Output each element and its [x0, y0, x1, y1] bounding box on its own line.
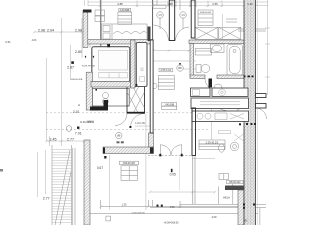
svg-text:GANG: GANG: [87, 120, 94, 123]
svg-text:2.88: 2.88: [117, 2, 123, 6]
svg-text:J 80.60B: J 80.60B: [120, 9, 130, 12]
svg-text:2.98: 2.98: [38, 28, 45, 32]
svg-text:2.04: 2.04: [47, 28, 54, 32]
svg-text:2.77: 2.77: [43, 197, 50, 201]
svg-text:2.45: 2.45: [50, 137, 57, 141]
svg-text:J/08.00.00B: J/08.00.00B: [71, 79, 83, 81]
svg-text:J/08.00.007: J/08.00.007: [123, 162, 136, 165]
svg-text:1.50: 1.50: [170, 206, 175, 209]
svg-text:0.67: 0.67: [97, 166, 103, 170]
svg-text:HELA: HELA: [223, 195, 230, 199]
svg-text:J/08.00.002: J/08.00.002: [200, 12, 212, 14]
svg-text:2.80: 2.80: [75, 50, 82, 54]
svg-text:0.05: 0.05: [170, 173, 176, 177]
svg-text:2.09-30.2/3: 2.09-30.2/3: [206, 141, 219, 144]
svg-text:20: 20: [244, 219, 248, 223]
svg-text:1.20: 1.20: [247, 2, 253, 6]
svg-text:+8.00=306.00: +8.00=306.00: [164, 222, 179, 225]
svg-text:J05.60.002: J05.60.002: [229, 181, 242, 184]
svg-text:2.98: 2.98: [75, 28, 82, 32]
svg-text:2.77: 2.77: [67, 137, 74, 141]
svg-text:2.87: 2.87: [67, 66, 74, 70]
svg-text:1.41 1.05: 1.41 1.05: [135, 123, 145, 125]
svg-text:2.55 2.04: 2.55 2.04: [160, 69, 171, 72]
svg-text:2.51: 2.51: [5, 40, 11, 44]
svg-text:H: H: [78, 103, 80, 107]
svg-text:4.03: 4.03: [32, 39, 37, 42]
svg-text:J 80.60B: J 80.60B: [164, 104, 174, 107]
svg-text:2.10: 2.10: [73, 110, 79, 114]
svg-text:2.09: 2.09: [212, 216, 217, 219]
svg-text:+8.00=306.00: +8.00=306.00: [131, 213, 145, 215]
svg-text:KOPLHY 4M: KOPLHY 4M: [82, 66, 95, 68]
svg-text:1.30: 1.30: [122, 203, 127, 206]
svg-text:7.01: 7.01: [75, 131, 82, 135]
svg-text:1.98: 1.98: [167, 2, 173, 6]
svg-text:2.55: 2.55: [212, 2, 218, 6]
